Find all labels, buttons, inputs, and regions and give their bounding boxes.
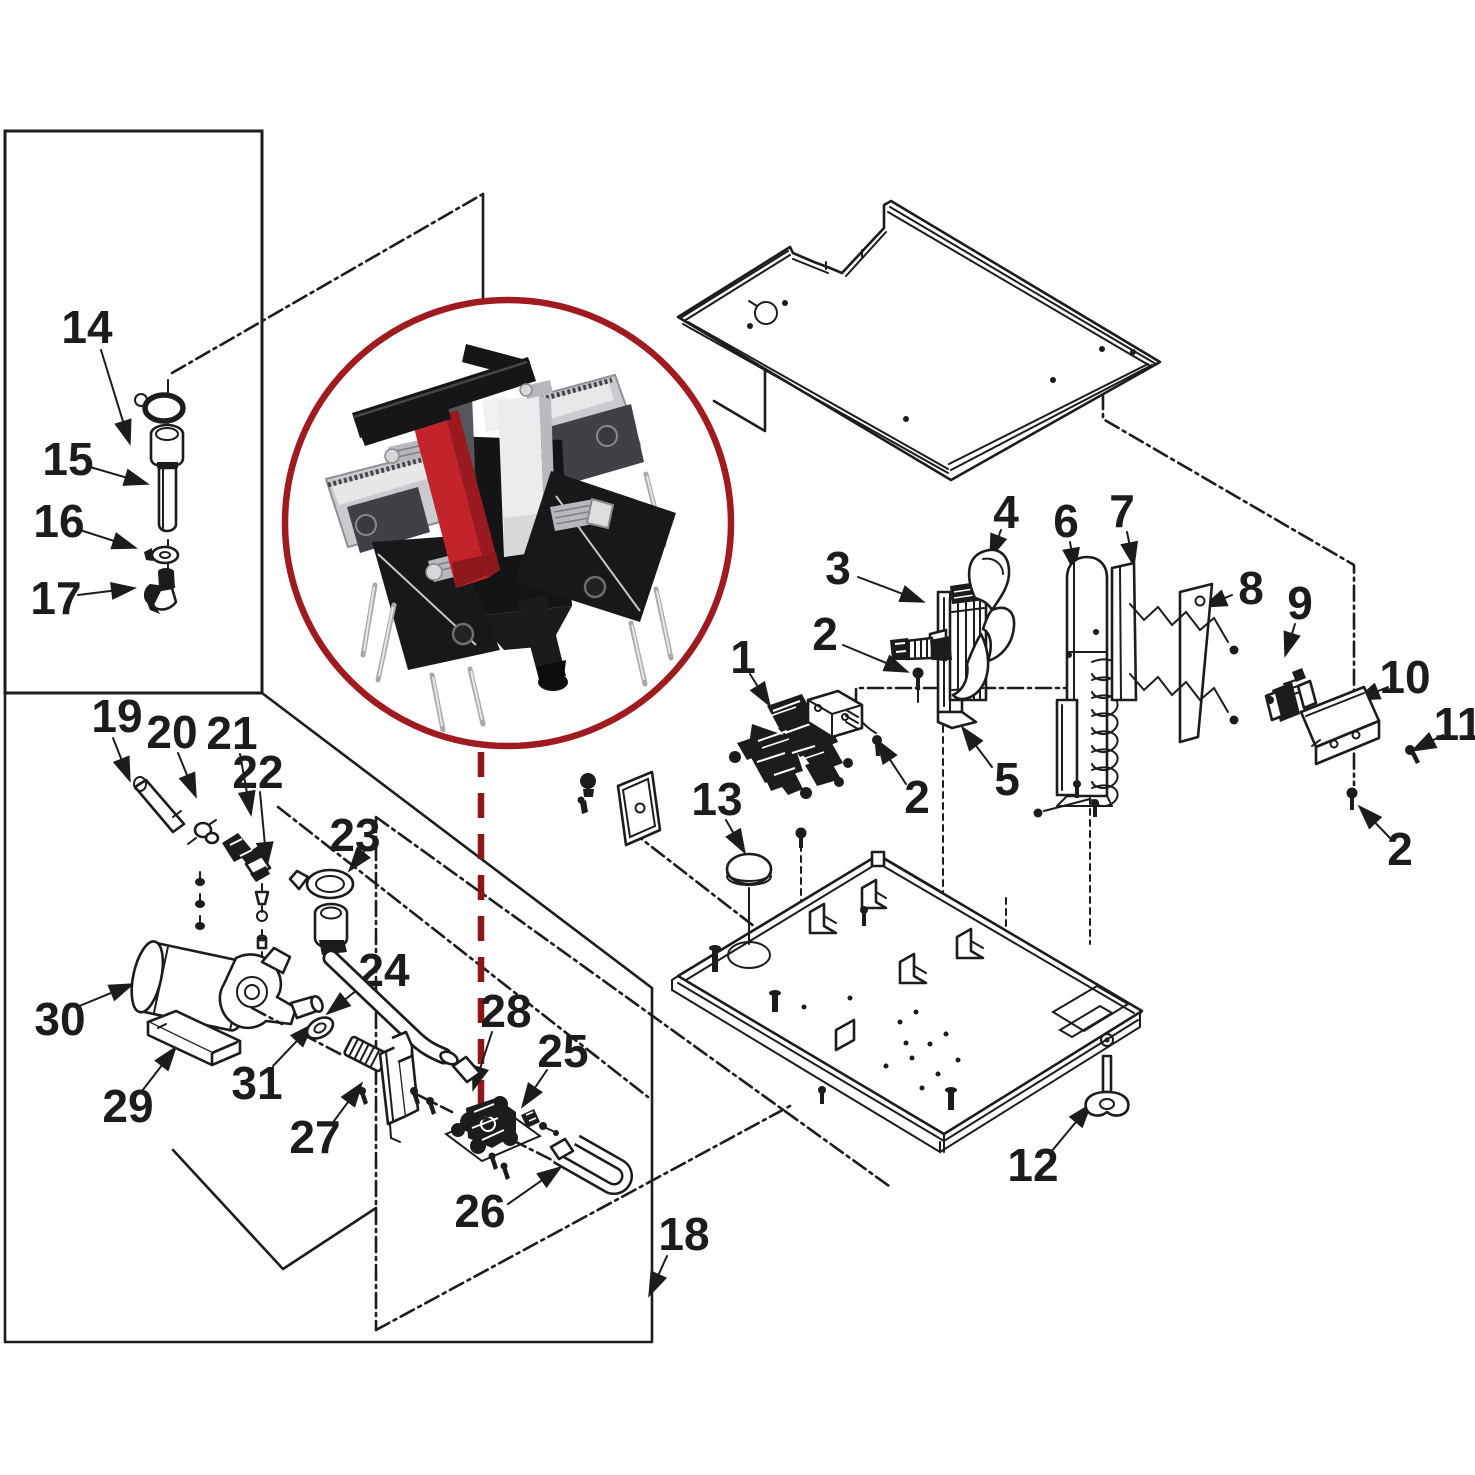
label 16 with arrow [33, 495, 137, 549]
pan hole [728, 942, 770, 968]
right clear switch block [507, 375, 640, 477]
label 7 with arrow [1109, 485, 1138, 568]
svg-text:4: 4 [993, 486, 1019, 538]
label 18 with arrow [648, 1208, 709, 1298]
svg-text:26: 26 [454, 1185, 505, 1237]
wire [262, 693, 652, 988]
black stem [518, 595, 566, 683]
pan corner notch [1053, 986, 1128, 1037]
svg-text:19: 19 [91, 690, 142, 742]
mounting base [148, 1011, 240, 1053]
svg-text:11: 11 [1434, 698, 1475, 750]
rear panel 7 [1112, 563, 1136, 700]
pan bolt [712, 950, 718, 972]
wire cover to cabinet right [1103, 394, 1354, 785]
wire to base pan [1005, 898, 1007, 1066]
bracket clip [957, 929, 983, 958]
svg-text:22: 22 [232, 746, 283, 798]
spring wire lower [1130, 674, 1228, 712]
screw 2b [872, 735, 882, 756]
label 10 with arrow [1354, 651, 1430, 703]
left mid silver screw [428, 553, 466, 582]
label 13 with arrow [691, 773, 746, 855]
svg-text:3: 3 [825, 542, 851, 594]
label 30 with arrow [34, 983, 134, 1045]
fan motor 3 with bracket 5 [890, 581, 986, 728]
label 24 with arrow [325, 944, 410, 1015]
access plate [578, 772, 661, 845]
svg-text:20: 20 [146, 706, 197, 758]
condenser coil 6 [1057, 557, 1118, 817]
label 2 with arrow [812, 608, 910, 673]
svg-text:30: 30 [34, 993, 85, 1045]
bracket 10 [1301, 687, 1379, 764]
wire [173, 1150, 376, 1269]
washer 16 [144, 547, 178, 563]
gasket 23 [290, 870, 353, 898]
label 5 with arrow [961, 725, 1020, 805]
svg-text:17: 17 [30, 572, 81, 624]
pan bolt3 [948, 1092, 954, 1110]
node locator line to part 14 [172, 194, 483, 373]
svg-text:1: 1 [730, 631, 756, 683]
screw above pan [796, 828, 807, 849]
label 28 with arrow [472, 985, 532, 1092]
red inset circle [285, 300, 731, 746]
label 21 with arrow [206, 707, 257, 817]
wire condenser to base pan [1089, 765, 1091, 944]
pump motor 30 [126, 872, 325, 1065]
center black body [450, 436, 572, 616]
pan bolt2 [772, 995, 778, 1012]
conduit fitting [906, 638, 932, 659]
svg-text:14: 14 [61, 301, 113, 353]
screw 2a [913, 668, 924, 691]
panel 18 outline [376, 817, 889, 1330]
o-ring clamp 14 [135, 394, 183, 421]
svg-text:2: 2 [1387, 823, 1413, 875]
label 9 with arrow [1284, 577, 1313, 658]
spring wire upper [1130, 604, 1228, 642]
drain u-tube 26 [551, 1139, 627, 1189]
hose clamp 20 [188, 820, 218, 844]
elbow 21 [222, 833, 270, 882]
pins [363, 585, 375, 655]
pump head volute 29 area [220, 954, 296, 1027]
inner panel [1057, 700, 1077, 795]
white bar [498, 396, 546, 557]
wire fan to base pan [942, 726, 944, 1112]
wire screw leader [917, 680, 919, 702]
plate under valve [446, 1110, 540, 1161]
fitting and bracket 27 [344, 1032, 436, 1142]
right small top screw [524, 380, 553, 399]
label 31 with arrow [231, 1023, 314, 1109]
wire screw to base pan [800, 845, 802, 1040]
left clear switch block [326, 451, 455, 547]
label 25 with arrow [521, 1025, 589, 1109]
label 17 with arrow [30, 572, 137, 624]
exploded axis through pump parts [252, 1008, 556, 1162]
svg-text:6: 6 [1053, 495, 1079, 547]
pump discharge standpipe and drain tube 24 [315, 904, 480, 1082]
svg-text:28: 28 [480, 985, 531, 1037]
bracket clip [900, 954, 926, 983]
red dashed locator line to part 28 [478, 752, 485, 1104]
right hook pin [646, 474, 664, 545]
top T-bar [352, 357, 536, 438]
fitting 22 small parts [256, 884, 268, 958]
right big silver screw [550, 499, 599, 531]
foot assembly 12 [1086, 1034, 1129, 1115]
svg-text:12: 12 [1007, 1139, 1058, 1191]
enclosure box upper-left (parts 14-17 detail box) [5, 131, 262, 693]
cap 13 [727, 854, 771, 944]
label 11 with arrow [1410, 698, 1475, 752]
left black switch plate [372, 536, 500, 670]
svg-text:7: 7 [1109, 485, 1135, 537]
o-ring 31 [303, 1013, 336, 1043]
wire cover to cabinet left [714, 369, 765, 431]
svg-text:9: 9 [1287, 577, 1313, 629]
label 2 with arrow [876, 738, 930, 823]
label 22 with arrow [232, 746, 283, 868]
label 6 with arrow [1053, 495, 1080, 574]
label 2 with arrow [1358, 805, 1413, 875]
right black switch plate [515, 471, 676, 622]
enclosure box lower-left outline [5, 693, 652, 1342]
label 23 with arrow [329, 809, 380, 873]
pan front screw [820, 1092, 824, 1104]
label 26 with arrow [454, 1166, 562, 1237]
wire plate-13 alignment [630, 830, 755, 927]
top cover panel [678, 201, 1160, 480]
gray bar [433, 395, 475, 473]
cabinet corner edge [482, 194, 485, 300]
side panel 8 [1130, 584, 1239, 742]
inlet tube 19 [134, 777, 184, 832]
pan small screw [862, 912, 866, 926]
svg-text:25: 25 [537, 1025, 588, 1077]
wire [278, 807, 648, 1097]
small silver stub [473, 382, 485, 394]
label 12 with arrow [1007, 1103, 1092, 1192]
label 14 with arrow [61, 301, 131, 446]
exploded axis line parts 14-17 [167, 380, 169, 570]
svg-text:13: 13 [691, 773, 742, 825]
label 20 with arrow [146, 706, 197, 799]
white post [482, 396, 510, 432]
svg-text:15: 15 [42, 433, 93, 485]
wire condenser bottom screw [1034, 809, 1043, 818]
mounting bracket (part 2 screws attach) [808, 691, 876, 737]
svg-text:16: 16 [33, 495, 84, 547]
wire horizontal dot-dash valve to condenser [856, 688, 1068, 704]
label 27 with arrow [289, 1081, 363, 1163]
svg-text:10: 10 [1379, 651, 1430, 703]
label 15 with arrow [42, 433, 149, 486]
label 19 with arrow [91, 690, 142, 783]
compression fitting 25 [521, 1109, 559, 1136]
water inlet valve 1 [729, 694, 853, 799]
svg-text:8: 8 [1238, 562, 1264, 614]
label 29 with arrow [102, 1045, 177, 1132]
pan rivet dots [898, 1020, 903, 1025]
bracket clip [810, 904, 836, 933]
bracket clip small [836, 1020, 854, 1050]
svg-text:2: 2 [812, 608, 838, 660]
screw 2c [1347, 788, 1358, 811]
label 4 with arrow [989, 486, 1019, 560]
standpipe 15 [151, 425, 183, 531]
label 1 with arrow [730, 631, 771, 708]
bracket clip [862, 880, 886, 908]
elbow fitting 17 [144, 568, 176, 614]
coil loops [1092, 659, 1118, 806]
red bar [413, 414, 488, 588]
base pan [672, 852, 1142, 1152]
distribution valve 28 [446, 1096, 540, 1180]
left top silver screw [388, 438, 433, 464]
label 3 with arrow [825, 542, 926, 603]
label 8 with arrow [1201, 562, 1264, 614]
screws above pump [199, 872, 201, 922]
svg-text:18: 18 [658, 1208, 709, 1260]
fan cycle control 9 [1266, 668, 1316, 722]
svg-text:29: 29 [102, 1080, 153, 1132]
svg-text:2: 2 [904, 771, 930, 823]
screw 11 [1405, 745, 1420, 764]
fan blade 4 [953, 550, 1014, 699]
svg-text:27: 27 [289, 1111, 340, 1163]
svg-text:5: 5 [994, 753, 1020, 805]
